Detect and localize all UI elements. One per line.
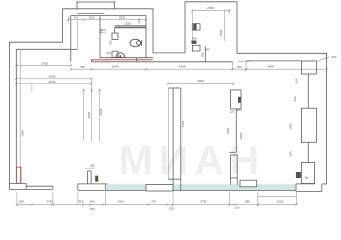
- dim 3300: [168, 83, 234, 85]
- svg-text:320: 320: [332, 55, 337, 59]
- svg-text:МИАН: МИАН: [119, 137, 266, 183]
- hall vertical dim a: [83, 89, 85, 141]
- svg-text:760: 760: [74, 15, 79, 19]
- mid tick: [229, 151, 236, 153]
- partition living/kitchen left line: [167, 88, 169, 179]
- sill end tick: [52, 186, 54, 189]
- wc wall band: [115, 26, 147, 28]
- partition kitchen/right upper box: [231, 90, 241, 109]
- dark block bottom partition: [95, 176, 98, 182]
- red demolition line over corridor wall: [92, 60, 153, 62]
- bay corner ticks: [76, 1, 116, 3]
- right wall box3: [302, 162, 315, 183]
- svg-text:560: 560: [19, 200, 24, 204]
- door jamb upper: [112, 33, 118, 39]
- svg-text:2060: 2060: [239, 132, 243, 139]
- wc left wall upper segment: [114, 28, 116, 33]
- bathroom left wall: [99, 16, 101, 58]
- balcony door white box right: [240, 180, 257, 187]
- kitchen lower box: [192, 45, 200, 51]
- left window sill upper line: [26, 185, 53, 187]
- bottom dimension line: [17, 204, 297, 206]
- svg-text:230: 230: [169, 207, 174, 211]
- partition lower box: [231, 155, 238, 178]
- svg-text:9м: 9м: [305, 176, 309, 180]
- svg-text:910: 910: [295, 78, 299, 83]
- toilet seat circle: [137, 41, 141, 45]
- bottom partition double wall: [87, 171, 89, 184]
- exterior wall outline: [10, 2, 327, 192]
- kitchen duct dark fill: [193, 24, 196, 30]
- svg-text:2330: 2330: [207, 6, 214, 10]
- svg-text:180: 180: [205, 48, 210, 52]
- ext line: [67, 16, 69, 23]
- svg-text:960: 960: [293, 96, 297, 101]
- svg-text:3428: 3428: [179, 65, 186, 69]
- svg-text:2730: 2730: [200, 200, 207, 204]
- inner face top-left room: [16, 49, 77, 183]
- 2700 ticks: [15, 64, 72, 66]
- svg-text:955: 955: [109, 40, 113, 45]
- dim extension at 232.6: [232, 62, 234, 71]
- svg-text:890: 890: [245, 200, 250, 204]
- svg-text:1530: 1530: [124, 21, 131, 25]
- svg-text:2250: 2250: [117, 200, 124, 204]
- svg-text:3630: 3630: [99, 108, 103, 115]
- wc inner top line: [115, 24, 147, 26]
- dark block in upper box: [238, 97, 241, 103]
- svg-text:350: 350: [79, 200, 84, 204]
- extension line x=77.5: [77, 20, 79, 50]
- partition top cap: [168, 87, 181, 89]
- svg-text:970: 970: [151, 200, 156, 204]
- kitchen vertical dim: [223, 10, 225, 41]
- kitchen lower dark block: [192, 41, 197, 44]
- dim 3050 lower: [16, 83, 91, 85]
- toilet tank bar: [141, 40, 143, 45]
- svg-text:2700: 2700: [41, 61, 48, 65]
- right inner connector upper: [307, 74, 309, 108]
- svg-text:2590: 2590: [87, 111, 91, 118]
- sink red drain dot: [119, 55, 121, 57]
- svg-text:2030: 2030: [119, 15, 126, 19]
- svg-text:2060: 2060: [219, 29, 223, 36]
- 3050 lower ticks: [15, 82, 93, 84]
- partition bottom cap: [168, 178, 181, 180]
- red pilaster bottom-left: [16, 167, 21, 183]
- hall vertical dim c: [99, 89, 101, 142]
- dim 3050 upper: [16, 78, 91, 80]
- svg-text:1150: 1150: [88, 15, 95, 19]
- partition living/kitchen double wall: [172, 88, 174, 191]
- 2330 ticks: [191, 9, 230, 11]
- bathroom bottom inner wall: [100, 57, 153, 59]
- divider white box / teal: [105, 184, 107, 191]
- main dim ticks: [70, 68, 329, 70]
- bottom-right block top: [296, 183, 315, 185]
- teal band top edge: [107, 184, 296, 186]
- right inner connector lower: [307, 142, 309, 162]
- door jamb lower: [112, 51, 118, 57]
- svg-text:1850: 1850: [226, 127, 230, 134]
- hall vdim ticks: [82, 89, 100, 91]
- left vertical dim: [19, 49, 21, 183]
- dark block near box3: [296, 172, 301, 178]
- svg-text:850: 850: [99, 29, 103, 34]
- right room top inner face: [246, 60, 302, 62]
- bottom dim ticks: [16, 203, 298, 205]
- svg-text:1280: 1280: [21, 130, 25, 137]
- left window sill lower line: [26, 188, 53, 190]
- small ext vertical: [31, 84, 33, 93]
- balcony door white box left: [146, 184, 173, 191]
- svg-text:800: 800: [288, 151, 292, 156]
- svg-text:250: 250: [90, 163, 95, 167]
- raised bay above top wall: [77, 2, 114, 9]
- partition bottom stub: [230, 178, 232, 185]
- dim 250 line: [86, 167, 94, 169]
- inner face left of wc block: [70, 16, 72, 62]
- small dim under 220: [101, 31, 106, 33]
- svg-text:640: 640: [90, 200, 95, 204]
- kitchen dim ext left: [191, 10, 193, 44]
- kitchen window dim line: [192, 9, 229, 11]
- entry dim ticks: [67, 18, 147, 20]
- svg-text:220: 220: [235, 206, 240, 210]
- svg-text:4437: 4437: [268, 65, 275, 69]
- kitchen dim ext right: [228, 10, 230, 14]
- svg-text:780: 780: [201, 52, 205, 57]
- balcony glazing teal band: [107, 185, 296, 190]
- svg-text:420: 420: [192, 37, 197, 41]
- dim extension at 246: [245, 61, 247, 71]
- bottom-left corner block top: [10, 182, 27, 184]
- wall stub bathroom/wc: [136, 58, 138, 62]
- sink half-oval: [116, 53, 125, 58]
- bottom-right block left: [295, 184, 297, 192]
- main dim line y69.2: [71, 68, 327, 70]
- svg-text:600: 600: [237, 108, 242, 112]
- bay inner line: [77, 12, 105, 14]
- bottom wall segment left of teal: [78, 183, 108, 185]
- inner top of wc block: [71, 15, 146, 17]
- partition mid line: [235, 109, 237, 152]
- svg-text:940: 940: [137, 18, 141, 23]
- svg-text:2545: 2545: [112, 65, 119, 69]
- right wall box2: [302, 108, 317, 142]
- bottom dim extension lines: [17, 191, 297, 206]
- 3050 upper ticks: [15, 77, 93, 79]
- door threshold line: [238, 60, 252, 62]
- svg-text:5160: 5160: [181, 120, 185, 127]
- svg-text:140: 140: [106, 51, 111, 55]
- svg-text:250: 250: [90, 207, 95, 211]
- kitchen duct outline: [192, 24, 200, 30]
- hall vertical dim b: [91, 89, 93, 142]
- bottom wall line under balcony band: [78, 189, 296, 191]
- left edge of bottom wall segment: [77, 184, 79, 191]
- corridor top wall: [92, 61, 233, 63]
- bottom partition cap: [88, 170, 92, 172]
- entry dim line y19.6: [68, 19, 146, 21]
- bathroom right inner wall: [145, 16, 147, 58]
- svg-text:2110: 2110: [277, 200, 284, 204]
- kitchen lower wall line: [204, 46, 206, 62]
- right wall box1: [302, 61, 317, 74]
- toilet bowl: [130, 39, 141, 47]
- svg-text:3300: 3300: [197, 79, 204, 83]
- svg-text:120: 120: [230, 110, 235, 114]
- 3300 ticks: [167, 82, 235, 84]
- bottom-left corner block right: [25, 183, 27, 189]
- svg-text:3050: 3050: [49, 80, 56, 84]
- left hall dim 2700: [16, 64, 71, 66]
- svg-text:3050: 3050: [49, 75, 56, 79]
- svg-text:1600: 1600: [288, 123, 292, 130]
- balcony outer edge right: [258, 195, 297, 197]
- svg-text:2760: 2760: [46, 200, 53, 204]
- svg-text:760: 760: [80, 65, 85, 69]
- svg-text:360: 360: [237, 65, 242, 69]
- leader line to 320: [316, 57, 329, 62]
